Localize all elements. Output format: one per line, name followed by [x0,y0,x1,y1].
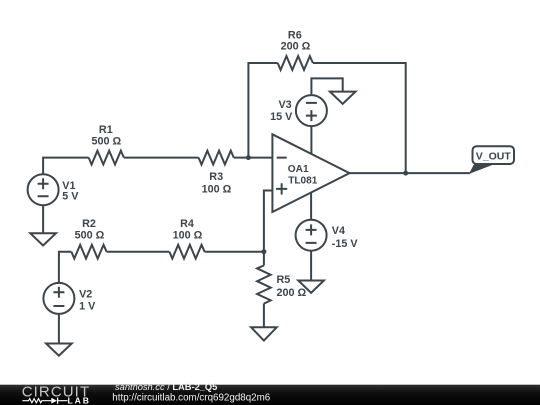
voltage source V1 [28,174,59,205]
wire V2 bottom [58,314,60,344]
resistor R3 [199,151,234,165]
svg-text:V4: V4 [332,225,345,237]
wire op-amp output to V_OUT [350,172,470,174]
resistor R1 [89,151,124,165]
svg-text:1 V: 1 V [79,301,96,313]
resistor R5 [257,266,271,304]
voltage source V4 [296,220,327,251]
ground V3 [330,92,356,104]
ground V2 [46,344,72,356]
wire V1 bottom [42,205,44,233]
ground V4 [298,281,324,293]
flag V_OUT [470,146,514,173]
svg-text:200 Ω: 200 Ω [281,41,311,53]
wire V1 top to R1 [43,158,89,175]
svg-text:R1: R1 [99,124,113,136]
voltage source V2 [43,283,74,314]
svg-text:R2: R2 [82,218,96,230]
resistor R6 [278,56,313,70]
wire R2 to R4 [107,251,170,253]
svg-text:200 Ω: 200 Ω [277,287,307,299]
svg-text:santhosh.cc / LAB-2_Q5: santhosh.cc / LAB-2_Q5 [115,382,217,392]
wire V3 bottom to op-amp V+ [310,126,312,154]
node junction at inverting input [246,155,251,160]
wire V3 top to ground [311,78,342,95]
wire op-amp noninverting input down to node B [264,191,273,266]
svg-text:LAB: LAB [68,395,91,405]
wire R5 bottom [263,304,265,328]
ground V1 [30,233,56,245]
svg-text:TL081: TL081 [288,175,318,186]
svg-text:V3: V3 [278,99,291,111]
op-amp U1 triangle [272,134,349,212]
svg-text:V2: V2 [79,288,92,300]
svg-text:100 Ω: 100 Ω [173,230,203,242]
svg-text:500 Ω: 500 Ω [91,135,121,147]
voltage source V3 [296,95,327,126]
wire V2 top to R2 [59,252,72,283]
resistor R2 [71,245,106,259]
logo CIRCUIT LAB [22,383,91,405]
wire op-amp V- to V4 top [310,193,312,220]
wire V4 bottom [310,251,312,281]
svg-text:V_OUT: V_OUT [476,151,512,163]
svg-text:OA1: OA1 [288,164,309,175]
svg-text:http://circuitlab.com/crq692gd: http://circuitlab.com/crq692gd8q2m6 [112,392,270,403]
footer text [112,382,270,403]
ground R5 [251,327,277,340]
wire R4 to node B [205,251,264,253]
svg-text:R5: R5 [277,274,291,286]
node junction output [403,171,408,176]
svg-text:100 Ω: 100 Ω [202,184,232,196]
footer bar [0,385,540,405]
wire feedback left vertical [248,63,277,158]
svg-text:500 Ω: 500 Ω [75,230,105,242]
svg-text:15 V: 15 V [270,111,293,123]
node junction B [261,249,266,254]
wire R1 to R3 [124,157,199,159]
wire R6 to output node [313,63,406,173]
wire R3 to op-amp inverting input [234,157,273,159]
svg-text:-15 V: -15 V [332,238,359,250]
svg-text:R4: R4 [180,218,194,230]
resistor R4 [169,245,204,259]
svg-text:5 V: 5 V [62,190,79,202]
svg-text:R3: R3 [209,171,223,183]
